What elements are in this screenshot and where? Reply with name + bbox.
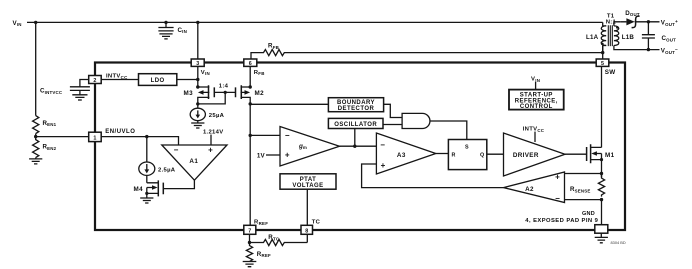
svg-text:RREF: RREF xyxy=(254,220,268,226)
wire A2 output to A3 plus xyxy=(362,164,504,188)
regulator LDO xyxy=(139,74,177,86)
svg-text:VOLTAGE: VOLTAGE xyxy=(292,183,323,189)
svg-text:2: 2 xyxy=(93,78,96,84)
wire pin 3 drop xyxy=(197,22,199,59)
wire PTAT to TC pin xyxy=(306,189,308,225)
junction dot M1 source xyxy=(600,158,603,161)
transistor M1 xyxy=(587,144,615,163)
wire A3 output to latch R xyxy=(436,153,449,155)
pin 6 RFB xyxy=(244,59,265,76)
capacitor CINTVCC xyxy=(70,80,90,91)
wire pin 2 to LDO xyxy=(101,79,138,81)
resistor REN1 xyxy=(33,116,39,134)
wire RFB pin to M2 xyxy=(249,66,251,87)
gate AND xyxy=(402,113,430,128)
junction dot gm minus branch xyxy=(249,134,252,137)
svg-text:RFB: RFB xyxy=(254,70,265,76)
svg-text:+: + xyxy=(555,173,560,182)
junction dot M3 source xyxy=(196,85,199,88)
svg-text:8: 8 xyxy=(305,229,308,235)
svg-text:EN/UVLO: EN/UVLO xyxy=(105,129,135,135)
block start-up reference control xyxy=(509,90,564,110)
transformer polarity dot secondary xyxy=(616,26,619,29)
amplifier gm xyxy=(280,127,340,167)
capacitor COUT xyxy=(642,22,655,50)
wire A1 output to M4 gate xyxy=(163,180,194,189)
current source 2.5uA xyxy=(139,162,176,175)
svg-text:25µA: 25µA xyxy=(209,113,225,119)
svg-text:A2: A2 xyxy=(525,186,534,193)
svg-text:INTVCC: INTVCC xyxy=(106,74,128,80)
svg-text:N:1: N:1 xyxy=(606,19,617,25)
wire latch Q to driver xyxy=(487,153,504,155)
resistor REN2 xyxy=(33,137,39,158)
pin 3 VIN xyxy=(191,59,210,76)
junction dot VIN rail left xyxy=(34,21,37,24)
block PTAT voltage xyxy=(280,174,336,189)
junction dot RSENSE bottom xyxy=(600,198,603,201)
wire mirror gate to drain tie xyxy=(198,92,225,104)
junction dot CIN xyxy=(164,21,167,24)
wire INTVCC tick xyxy=(534,132,536,142)
wire VIN start-up tick xyxy=(535,82,537,90)
junction dot gate link xyxy=(224,91,227,94)
capacitor CIN xyxy=(158,22,173,31)
junction dot M2 source xyxy=(249,85,252,88)
junction dot pin 3 branch xyxy=(196,21,199,24)
wire 1V to gm plus xyxy=(266,154,280,156)
svg-text:L1A: L1A xyxy=(586,34,599,41)
svg-text:DRIVER: DRIVER xyxy=(513,152,539,159)
pin 8 TC xyxy=(301,220,321,235)
svg-text:L1B: L1B xyxy=(622,34,635,41)
svg-text:+: + xyxy=(381,161,386,170)
ground CINTVCC xyxy=(72,90,87,100)
svg-text:SW: SW xyxy=(605,69,616,76)
transistor M2 xyxy=(236,85,265,104)
svg-text:gm: gm xyxy=(298,143,307,150)
pin 4 GND exposed pad xyxy=(595,225,608,234)
wire A2 minus to RSENSE bottom xyxy=(565,199,602,201)
comparator A3 xyxy=(376,133,435,174)
wire RSENSE to GND pin xyxy=(601,200,603,225)
wire 1.214V to A1 plus xyxy=(210,135,212,145)
svg-text:OSCILLATOR: OSCILLATOR xyxy=(334,122,377,128)
wire EN divider to pin 1 xyxy=(36,134,89,137)
ground CIN xyxy=(159,34,172,39)
svg-text:INTVCC: INTVCC xyxy=(523,127,545,133)
wire mirror gate link xyxy=(214,91,235,93)
pin 7 RREF xyxy=(244,220,268,235)
wire EN to current source xyxy=(146,137,148,162)
wire RREF pin down xyxy=(249,234,251,242)
transformer T1 primary L1A xyxy=(586,22,606,52)
wire VIN top rail xyxy=(27,21,603,23)
pin 1 EN/UVLO xyxy=(89,129,136,142)
wire AND to latch S xyxy=(430,121,467,140)
wire driver to M1 gate xyxy=(565,153,587,155)
svg-text:TC: TC xyxy=(312,220,321,226)
svg-text:M1: M1 xyxy=(605,152,615,159)
wire RFB external xyxy=(251,50,603,60)
svg-text:R: R xyxy=(452,153,456,159)
svg-text:CONTROL: CONTROL xyxy=(520,104,553,110)
diode DOUT xyxy=(621,16,660,28)
svg-text:+: + xyxy=(285,151,290,160)
svg-text:Q: Q xyxy=(480,153,484,159)
svg-text:−: − xyxy=(380,141,385,150)
svg-text:4, EXPOSED PAD PIN 9: 4, EXPOSED PAD PIN 9 xyxy=(525,218,598,224)
resistor RSENSE xyxy=(598,174,604,197)
wire LDO output to VIN line xyxy=(177,79,198,81)
transformer T1 core xyxy=(608,25,612,46)
ground 25uA xyxy=(191,120,204,128)
svg-text:LDO: LDO xyxy=(151,78,165,84)
svg-text:1:4: 1:4 xyxy=(219,84,229,90)
wire M1 source to RSENSE xyxy=(601,160,603,178)
wire boundary detector to AND xyxy=(384,104,403,117)
wire RTC to TC pin xyxy=(306,234,308,242)
svg-text:−: − xyxy=(285,131,290,140)
wire SW node xyxy=(602,46,604,59)
svg-text:M2: M2 xyxy=(255,90,265,97)
svg-text:DETECTOR: DETECTOR xyxy=(338,106,375,112)
wire oscillator to gm output xyxy=(354,129,356,147)
svg-text:8304 BD: 8304 BD xyxy=(611,240,626,245)
wire A2 plus to RSENSE top xyxy=(565,173,602,175)
svg-text:7: 7 xyxy=(248,229,251,235)
junction dot gm output xyxy=(353,145,356,148)
svg-text:3: 3 xyxy=(196,61,199,67)
wire M2 drain to boundary detector xyxy=(250,103,328,105)
junction dot M4 source xyxy=(145,192,148,195)
junction dot RFB-SW node xyxy=(601,51,604,54)
junction dot RREF node xyxy=(248,241,251,244)
svg-text:A3: A3 xyxy=(397,152,406,159)
junction dot M2 drain xyxy=(249,102,252,105)
svg-text:VIN: VIN xyxy=(201,70,210,76)
junction dot LDO output xyxy=(196,78,199,81)
svg-text:M4: M4 xyxy=(134,186,144,193)
junction dot EN divider xyxy=(34,135,37,138)
buffer DRIVER xyxy=(504,133,566,176)
current source 25uA xyxy=(190,104,224,121)
svg-text:−: − xyxy=(174,145,179,154)
ground M4 xyxy=(140,198,153,203)
wire SW internal xyxy=(601,66,603,147)
transistor M3 xyxy=(184,85,215,104)
svg-text:1V: 1V xyxy=(257,153,266,160)
svg-text:−: − xyxy=(555,194,560,203)
ground RREF xyxy=(243,262,257,267)
svg-text:M3: M3 xyxy=(184,90,194,97)
block oscillator xyxy=(328,118,383,128)
wire to gm minus input xyxy=(250,134,280,136)
svg-text:S: S xyxy=(465,145,469,151)
svg-text:6: 6 xyxy=(249,61,252,67)
ground GND pin xyxy=(595,233,608,243)
wire M2 drain to RREF pin xyxy=(249,104,251,225)
pin 5 SW xyxy=(596,59,615,76)
wire VIN internal xyxy=(197,66,199,87)
wire gm output xyxy=(340,145,377,147)
transformer polarity dot primary xyxy=(601,43,604,46)
resistor RREF external xyxy=(246,243,252,262)
IC boundary xyxy=(95,63,625,231)
junction dot RSENSE top xyxy=(600,172,603,175)
svg-text:1.214V: 1.214V xyxy=(203,129,223,135)
svg-text:1: 1 xyxy=(93,135,96,141)
wire EN/UVLO internal xyxy=(101,137,178,145)
wire current source to M4 xyxy=(146,176,148,183)
junction dot VOUT+ xyxy=(647,20,650,23)
pin 2 INTVCC xyxy=(89,74,128,84)
svg-text:2.5µA: 2.5µA xyxy=(158,167,176,173)
transformer T1 secondary L1B xyxy=(614,22,660,50)
junction dot M3 drain xyxy=(196,102,199,105)
junction dot VOUT- xyxy=(647,48,650,51)
junction dot 2.5uA branch xyxy=(145,135,148,138)
svg-text:A1: A1 xyxy=(189,158,198,165)
wire oscillator to AND xyxy=(383,124,402,126)
latch SR xyxy=(448,140,486,170)
svg-text:5: 5 xyxy=(601,61,604,67)
wire VIN left branch xyxy=(35,22,37,115)
ground REN2 xyxy=(29,158,42,164)
resistor RTC xyxy=(250,239,308,245)
svg-text:GND: GND xyxy=(582,211,595,217)
svg-text:+: + xyxy=(208,146,213,155)
transistor M4 xyxy=(134,180,164,197)
comparator A1 xyxy=(162,145,227,180)
amplifier A2 xyxy=(504,172,565,203)
block boundary detector xyxy=(328,98,383,112)
